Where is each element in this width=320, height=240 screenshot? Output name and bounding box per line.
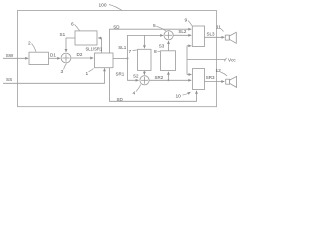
svg-text:SD: SD xyxy=(113,24,120,29)
wire branch into filter 7 xyxy=(143,35,145,48)
adder 3 xyxy=(61,53,71,63)
wire D2 xyxy=(71,57,93,59)
label 100 xyxy=(99,3,123,11)
svg-text:SR3: SR3 xyxy=(206,75,215,80)
svg-text:SR2: SR2 xyxy=(155,75,164,80)
svg-text:5: 5 xyxy=(153,23,156,29)
svg-text:6: 6 xyxy=(71,22,74,28)
box 7 filter xyxy=(138,49,152,70)
wire SW input xyxy=(3,57,28,59)
wire D1 xyxy=(49,57,61,59)
svg-text:D1: D1 xyxy=(50,52,56,57)
label 1 xyxy=(86,69,94,78)
speaker 11 xyxy=(225,32,236,43)
wire SR3 : amp10 -> speaker12 xyxy=(205,81,225,83)
outer border box 100 xyxy=(18,11,217,107)
label 6 xyxy=(71,22,80,31)
svg-text:SS: SS xyxy=(6,77,12,82)
svg-text:2: 2 xyxy=(28,41,31,47)
wire Vcc branch into amp9 xyxy=(187,45,191,47)
svg-text:SD: SD xyxy=(117,97,124,102)
svg-text:S1: S1 xyxy=(60,32,66,37)
box 1 controller xyxy=(95,53,114,68)
wire branch into box 8 bottom xyxy=(167,72,169,81)
wire SR2 : adder4 -> box10 ; junction up into box8 bottom xyxy=(149,79,191,81)
wire S3 : box8 top -> adder5 bottom xyxy=(168,41,170,51)
speaker 12 xyxy=(226,76,237,87)
label 8 xyxy=(154,49,160,55)
wire SS input to controller 1 bottom xyxy=(3,68,105,83)
adder 4 xyxy=(140,76,149,85)
svg-text:SR1: SR1 xyxy=(116,71,125,76)
label 2 xyxy=(28,41,36,52)
svg-text:D2: D2 xyxy=(77,52,83,57)
svg-text:SL1: SL1 xyxy=(118,45,127,50)
svg-text:4: 4 xyxy=(133,91,136,97)
wire SR1 : junction -> down -> adder4 xyxy=(128,58,139,80)
label 10 xyxy=(176,92,191,100)
box 2 xyxy=(29,52,49,64)
svg-text:1: 1 xyxy=(86,71,89,77)
svg-text:SL1/SR1: SL1/SR1 xyxy=(86,47,103,52)
svg-text:12: 12 xyxy=(216,68,222,74)
junction dot SR2/box8 xyxy=(167,79,169,81)
Vcc end tick xyxy=(224,58,226,61)
svg-text:10: 10 xyxy=(176,94,182,100)
box 8 filter xyxy=(161,51,176,71)
label 11 xyxy=(216,25,224,32)
wire SL3 : amp9 -> speaker11 xyxy=(205,36,225,38)
label 7 xyxy=(129,49,137,55)
wire SL1 : box1 right -> junction -> up -> adder5 ; branch down to box7 xyxy=(113,57,128,59)
svg-text:S2: S2 xyxy=(133,74,139,79)
junction dot SL1/SR1 split xyxy=(127,57,129,59)
svg-text:3: 3 xyxy=(61,69,64,75)
wire S1 : box6 left -> adder3 top xyxy=(66,38,75,52)
svg-text:8: 8 xyxy=(154,49,157,55)
wire S2 : box7 bottom -> adder4 top xyxy=(143,71,145,75)
box 10 amplifier xyxy=(193,69,205,90)
svg-text:100: 100 xyxy=(99,3,107,9)
svg-text:9: 9 xyxy=(185,18,188,24)
svg-text:S3: S3 xyxy=(159,44,165,49)
wire SL1/SR1 : box1 top -> box6 right xyxy=(98,38,101,53)
wire SD top : box1 top -> amp9 xyxy=(110,29,192,53)
wire Vcc branch into amp10 xyxy=(187,74,192,76)
label 9 xyxy=(185,18,193,26)
label 5 xyxy=(153,23,166,31)
svg-text:SW: SW xyxy=(6,53,14,58)
label 4 xyxy=(133,85,141,97)
label 12 xyxy=(216,68,228,76)
svg-text:SL3: SL3 xyxy=(207,32,216,37)
Vcc rail xyxy=(187,46,225,75)
box 6 xyxy=(75,31,97,45)
label 3 xyxy=(61,64,67,76)
svg-text:7: 7 xyxy=(129,49,132,55)
svg-text:11: 11 xyxy=(216,25,221,31)
svg-text:SL2: SL2 xyxy=(178,29,187,34)
wire SL2 : adder5 -> amp9 xyxy=(173,34,191,36)
wire SD bottom : box1 bottom -> amp10 bottom xyxy=(110,68,197,102)
adder 5 xyxy=(164,31,173,40)
box 9 amplifier xyxy=(192,26,204,47)
svg-text:Vcc: Vcc xyxy=(228,58,236,63)
